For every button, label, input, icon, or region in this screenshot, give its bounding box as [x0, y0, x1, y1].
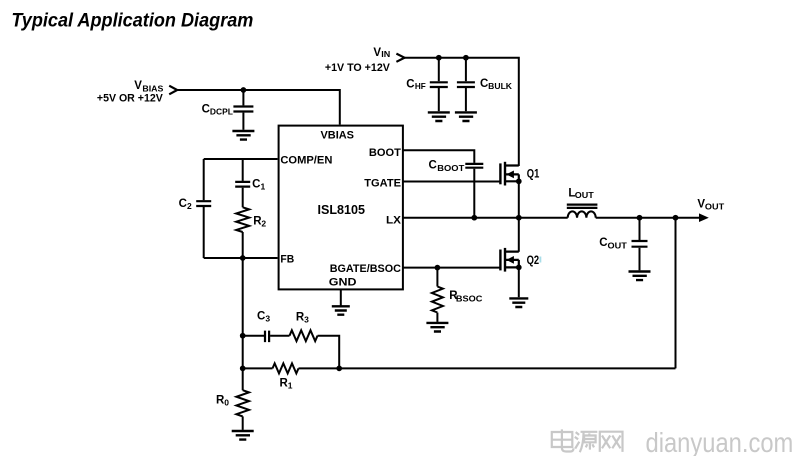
svg-text:+5V OR +12V: +5V OR +12V — [97, 93, 164, 105]
svg-text:V: V — [373, 47, 381, 59]
svg-text:C: C — [257, 311, 265, 323]
svg-text:GND: GND — [329, 276, 357, 288]
svg-text:ISL8105: ISL8105 — [318, 203, 366, 217]
svg-text:OUT: OUT — [575, 190, 595, 200]
svg-text:HF: HF — [415, 81, 426, 91]
svg-text:BOOT: BOOT — [369, 147, 401, 159]
svg-text:3: 3 — [304, 315, 309, 325]
svg-text:DCPL: DCPL — [210, 107, 233, 117]
svg-text:1: 1 — [288, 381, 293, 391]
svg-text:FB: FB — [280, 254, 294, 266]
svg-text:2: 2 — [261, 219, 266, 229]
svg-text:+1V TO +12V: +1V TO +12V — [325, 62, 391, 74]
svg-text:C: C — [202, 104, 210, 116]
svg-text:BOOT: BOOT — [437, 163, 465, 173]
svg-text:C: C — [480, 78, 488, 90]
svg-text:OUT: OUT — [705, 201, 725, 211]
svg-text:dianyuan.com: dianyuan.com — [646, 427, 794, 456]
svg-text:C: C — [599, 237, 607, 249]
svg-text:C: C — [406, 79, 414, 91]
svg-text:BSOC: BSOC — [456, 294, 483, 304]
svg-text:Typical Application Diagram: Typical Application Diagram — [11, 10, 253, 32]
svg-text:COMP/EN: COMP/EN — [280, 155, 332, 167]
svg-text:3: 3 — [265, 314, 270, 324]
svg-text:C: C — [252, 179, 260, 191]
svg-text:VBIAS: VBIAS — [321, 129, 355, 141]
svg-text:V: V — [134, 80, 142, 92]
svg-text:BULK: BULK — [488, 81, 513, 91]
svg-text:2: 2 — [187, 201, 192, 211]
svg-text:BGATE/BSOC: BGATE/BSOC — [330, 263, 401, 275]
svg-text:Q1: Q1 — [527, 168, 540, 180]
svg-text:OUT: OUT — [608, 240, 628, 250]
svg-text:TGATE: TGATE — [364, 178, 401, 190]
svg-text:C: C — [179, 198, 187, 210]
svg-text:C: C — [429, 159, 437, 171]
svg-text:0: 0 — [224, 398, 229, 408]
svg-text:Q2: Q2 — [527, 255, 540, 267]
svg-text:IN: IN — [381, 49, 390, 59]
svg-text:LX: LX — [386, 215, 402, 227]
svg-text:1: 1 — [261, 182, 266, 192]
